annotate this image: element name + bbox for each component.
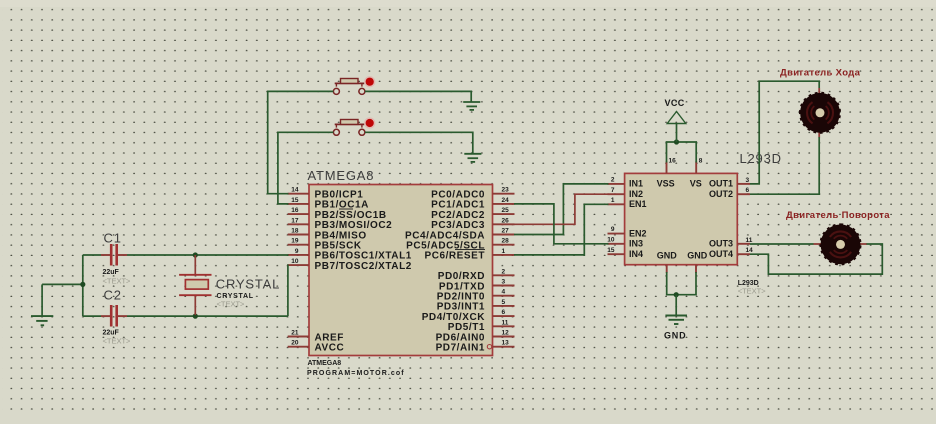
capacitor C1 (101, 254, 110, 256)
svg-text:2: 2 (502, 268, 506, 275)
svg-text:C2: C2 (104, 287, 122, 302)
overline RESET on PC6 (455, 249, 485, 251)
junction xtal top (193, 252, 198, 257)
svg-text:EN1: EN1 (629, 199, 647, 209)
svg-text:27: 27 (502, 228, 510, 235)
junction xtal bottom (193, 314, 198, 319)
ground symbol button1 (463, 101, 480, 103)
svg-text:OUT3: OUT3 (709, 239, 733, 249)
wire button1 to pin14 (268, 91, 334, 193)
wire button2 to ground (365, 132, 473, 153)
wire GND loop (667, 272, 696, 295)
motor M1 bottom terminal (818, 130, 820, 138)
wire pin1 to EN1 (514, 204, 609, 255)
push button SW1 (333, 76, 375, 94)
svg-text:Двигатель Хода: Двигатель Хода (780, 68, 861, 79)
svg-text:<TEXT>: <TEXT> (738, 287, 767, 296)
svg-text:4: 4 (502, 289, 506, 296)
svg-text:22uF: 22uF (103, 269, 120, 276)
svg-text:12: 12 (502, 330, 510, 337)
ATMEGA8 right pin stubs (493, 193, 515, 195)
svg-text:13: 13 (502, 340, 510, 347)
svg-text:OUT1: OUT1 (709, 179, 733, 189)
motor M2 right terminal (860, 243, 867, 245)
svg-text:2: 2 (611, 177, 615, 184)
svg-text:5: 5 (502, 299, 506, 306)
svg-text:VCC: VCC (665, 98, 685, 108)
wire VSS VS power loop (667, 142, 697, 163)
motor M1 top terminal (818, 88, 820, 96)
power symbol VCC arrow (667, 112, 686, 124)
capacitor C2 (101, 315, 110, 317)
ground symbol button2 (464, 153, 481, 155)
svg-text:PB7/TOSC2/XTAL2: PB7/TOSC2/XTAL2 (315, 261, 412, 272)
svg-text:Двигатель Поворота: Двигатель Поворота (786, 210, 890, 221)
wire xtal top net (83, 254, 101, 256)
svg-text:6: 6 (746, 187, 750, 194)
svg-text:11: 11 (746, 237, 753, 244)
svg-text:1: 1 (611, 197, 615, 204)
svg-text:10: 10 (291, 258, 299, 265)
svg-text:19: 19 (291, 238, 299, 245)
svg-text:22uF: 22uF (103, 329, 120, 336)
svg-text:L293D: L293D (740, 151, 782, 166)
svg-text:16: 16 (291, 207, 299, 214)
L293D top pin stubs (666, 162, 668, 174)
svg-text:14: 14 (746, 247, 754, 254)
svg-text:PC6/RESET: PC6/RESET (424, 251, 485, 262)
ground symbol left (41, 284, 43, 315)
svg-text:9: 9 (295, 248, 299, 255)
svg-text:20: 20 (291, 340, 299, 347)
svg-text:OUT2: OUT2 (709, 189, 733, 199)
wire OUT1 to motor M1 (750, 81, 819, 184)
svg-text:18: 18 (291, 228, 299, 235)
svg-text:CRYSTAL: CRYSTAL (216, 276, 280, 291)
svg-text:<TEXT>: <TEXT> (103, 336, 132, 345)
junction VCC (674, 139, 679, 144)
svg-text:C1: C1 (104, 230, 122, 245)
wire xtal bottom net (83, 315, 101, 317)
svg-text:<TEXT>: <TEXT> (217, 300, 246, 309)
L293D right pin stubs (737, 183, 750, 185)
svg-text:11: 11 (502, 319, 509, 326)
svg-text:15: 15 (291, 197, 299, 204)
wire ground spur (42, 283, 83, 285)
motor driver U2 L293D body (625, 173, 738, 264)
svg-text:IN3: IN3 (629, 239, 643, 249)
svg-text:ATMEGA8: ATMEGA8 (308, 360, 342, 367)
wire cap vertical (82, 255, 84, 316)
svg-text:9: 9 (611, 226, 615, 233)
ATMEGA8 left pin stubs (288, 193, 309, 195)
svg-text:EN2: EN2 (629, 228, 647, 238)
svg-text:IN2: IN2 (629, 189, 643, 199)
svg-text:IN1: IN1 (629, 179, 643, 189)
microcontroller U1 ATMEGA8 body (309, 185, 493, 356)
wire button1 to ground (365, 91, 471, 101)
wire to pin10 (287, 265, 290, 316)
junction GND (674, 292, 679, 297)
svg-text:VS: VS (690, 179, 702, 189)
overline SS on PB2 (339, 208, 353, 210)
motor M2 left terminal (814, 243, 822, 245)
svg-text:17: 17 (291, 217, 299, 224)
svg-text:28: 28 (502, 238, 510, 245)
push button SW2 (333, 117, 375, 135)
svg-text:21: 21 (291, 330, 299, 337)
L293D left pin stubs (608, 183, 625, 185)
svg-text:GND: GND (657, 251, 678, 261)
motor M1 drive (800, 93, 840, 133)
svg-text:10: 10 (607, 236, 615, 243)
L293D bottom pin stubs (666, 265, 668, 273)
svg-text:24: 24 (502, 197, 510, 204)
wire pin26 to IN2 red net (514, 194, 609, 224)
svg-text:GND: GND (664, 331, 686, 341)
svg-text:25: 25 (502, 207, 510, 214)
motor M2 turn (820, 224, 860, 264)
svg-text:23: 23 (502, 187, 510, 194)
svg-text:3: 3 (746, 177, 750, 184)
svg-text:ATMEGA8: ATMEGA8 (308, 168, 375, 183)
svg-text:IN4: IN4 (629, 249, 643, 259)
svg-text:PD7/AIN1: PD7/AIN1 (436, 343, 485, 354)
svg-text:26: 26 (502, 217, 510, 224)
wire button2 to pin15 (278, 132, 334, 204)
svg-text:1: 1 (502, 248, 506, 255)
svg-text:14: 14 (291, 187, 299, 194)
svg-text:8: 8 (699, 158, 703, 165)
wire pin24 to IN3 (514, 204, 609, 244)
svg-text:6: 6 (502, 309, 506, 316)
wire VCC stem (676, 124, 678, 143)
svg-text:OUT4: OUT4 (709, 249, 733, 259)
wire OUT3 to motor M2 (750, 243, 814, 245)
pin 13 bubble artifact (487, 345, 491, 349)
svg-text:16: 16 (669, 158, 677, 165)
wire motor M1 to OUT2 (750, 137, 819, 194)
svg-text:VSS: VSS (657, 179, 675, 189)
svg-text:AVCC: AVCC (315, 343, 345, 354)
svg-text:7: 7 (611, 187, 615, 194)
svg-text:PROGRAM=MOTOR.cof: PROGRAM=MOTOR.cof (307, 370, 405, 377)
ground symbol under L293D (665, 315, 687, 317)
svg-text:15: 15 (607, 247, 615, 254)
svg-text:<TEXT>: <TEXT> (103, 276, 132, 285)
wire GND stem (675, 295, 677, 315)
wire motor M2 to OUT4 (750, 244, 882, 274)
svg-text:3: 3 (502, 279, 506, 286)
wire pin27 to IN1 (514, 184, 609, 235)
svg-text:GND: GND (687, 251, 708, 261)
junction left (80, 282, 85, 287)
